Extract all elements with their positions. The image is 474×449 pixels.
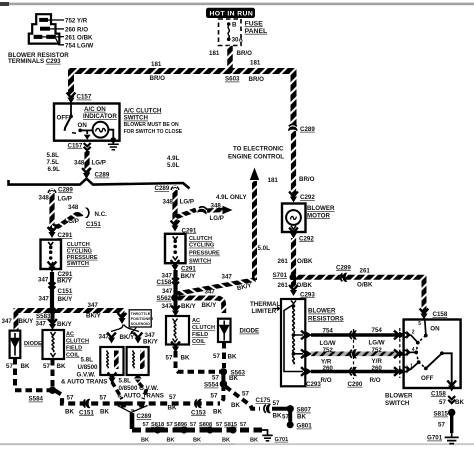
svg-text:57: 57 [43,363,50,370]
wire S562 down to coil (347 BK/Y) [174,300,178,310]
svg-text:ON: ON [430,325,440,332]
bottom ground rail 57 BK [132,428,262,433]
svg-text:7.5L: 7.5L [47,159,60,166]
A/C clutch field coil (left) [43,330,65,359]
wire 348 LG/P (left branch) [49,193,54,231]
svg-text:57: 57 [167,422,173,428]
wire S807 to G801 [288,411,292,422]
svg-text:4.9L: 4.9L [167,155,180,162]
svg-text:LG/W: LG/W [369,339,385,346]
svg-text:BK/Y: BK/Y [57,277,73,284]
svg-text:348: 348 [74,160,85,167]
svg-text:CYCLING: CYCLING [189,243,214,249]
svg-text:C289: C289 [155,185,170,192]
svg-text:C292: C292 [299,235,314,242]
svg-text:57: 57 [213,353,220,360]
wire 181 BR/O into blower motor [291,131,296,196]
svg-text:C289: C289 [58,186,73,193]
svg-text:57: 57 [242,391,249,398]
svg-text:COIL: COIL [66,352,80,358]
svg-text:C290: C290 [348,381,363,388]
svg-text:754 LG/W: 754 LG/W [65,42,93,49]
node S815 [448,409,455,416]
node S603 [227,68,232,73]
svg-text:181: 181 [250,59,261,66]
347 BK/Y bus (left lower) [16,311,122,331]
svg-text:347: 347 [36,320,47,327]
svg-text:& AUTO TRANS: & AUTO TRANS [61,379,107,386]
fuse F (B, 30A) [227,22,244,44]
svg-text:6.9L: 6.9L [48,166,61,173]
terminal 260 [40,27,50,31]
svg-text:A/C ON: A/C ON [84,106,106,113]
svg-text:BK/Y: BK/Y [202,302,218,309]
svg-text:DIODE: DIODE [240,328,260,335]
svg-text:A/C CLUTCH: A/C CLUTCH [124,107,162,114]
connector C151 (inline) [49,283,56,290]
svg-text:260: 260 [323,365,334,372]
svg-text:BK: BK [57,363,66,370]
svg-text:FUSE: FUSE [245,20,264,27]
svg-text:LG/P: LG/P [58,196,72,203]
svg-text:LIMITER: LIMITER [252,308,277,315]
wire S563 to S554 [221,373,225,381]
svg-text:BK/Y: BK/Y [58,296,74,303]
throttle positioner solenoid (right unit) [127,347,149,375]
diode (middle) [218,319,231,342]
svg-text:SWITCH: SWITCH [189,258,211,264]
svg-text:347: 347 [2,318,13,325]
svg-text:BK/Y: BK/Y [57,321,73,328]
clutch cycling pressure switch (middle) [165,234,186,263]
connector C151 (inline lower) [83,399,90,408]
svg-text:CLUTCH: CLUTCH [192,325,215,331]
connector C291 (below left switch) [48,262,57,273]
bus (second rail) [9,179,190,189]
leader 754 [56,39,64,45]
svg-text:347: 347 [38,277,49,284]
svg-text:57: 57 [439,399,446,406]
svg-text:C289: C289 [95,172,110,179]
svg-text:LG/W: LG/W [320,340,336,347]
wire S583 to coil (347 BK/Y) [51,312,55,322]
svg-text:BR/O: BR/O [249,76,265,83]
svg-text:POSITIONER: POSITIONER [131,317,154,321]
svg-text:5.0L: 5.0L [258,245,271,252]
dashed bus to S584 [15,388,50,392]
node S815 (rail) [229,426,236,433]
svg-text:5.8L: 5.8L [47,152,60,159]
svg-text:S815: S815 [224,422,237,428]
svg-text:TO ELECTRONIC: TO ELECTRONIC [233,146,284,153]
svg-text:O/BK: O/BK [297,258,313,265]
wire 261 O/BK motor to S701 [291,238,296,274]
svg-text:C291: C291 [181,265,196,272]
svg-text:BK/Y: BK/Y [120,334,136,341]
connector C289 (solenoid harness) [118,402,148,413]
connector C158 (inline, middle branch) [172,278,179,285]
svg-text:261: 261 [360,267,371,274]
clutch cycling pressure switch (left) [41,240,62,269]
connector C158 (switch top) [420,309,429,320]
wire S701 to blower switch (261 O/BK) [296,277,424,312]
svg-text:BK: BK [250,437,258,443]
svg-text:BLOWER MUST BE ON: BLOWER MUST BE ON [124,122,179,128]
wire to N.C. stub [52,214,83,227]
svg-text:BK: BK [229,375,238,382]
svg-text:OFF: OFF [421,375,434,382]
svg-text:BR/O: BR/O [299,176,315,183]
wire S701 down to resistors [291,280,296,289]
svg-text:& AUTO TRANS: & AUTO TRANS [118,393,164,400]
A/C on indicator box [54,104,120,141]
svg-text:BK: BK [168,404,177,411]
svg-text:5: 5 [418,321,421,327]
connector boundary at switch [399,328,401,378]
switch arm [426,353,452,384]
svg-text:BK: BK [273,412,282,419]
svg-text:SOLENOID: SOLENOID [131,322,151,326]
solenoid feed split [118,313,127,324]
wire 57 BK below middle coil [171,342,180,353]
svg-text:57: 57 [438,422,445,429]
ground G701 (right) [445,433,459,444]
svg-text:30A: 30A [232,37,244,44]
svg-text:347: 347 [39,296,50,303]
indicator lamp [80,122,108,138]
connector C290 (inline boundary) [353,329,355,379]
resistor wire 752 Y/R (striped) [301,347,405,366]
wire to ground [450,414,453,433]
svg-text:ENGINE CONTROL: ENGINE CONTROL [228,154,284,161]
svg-text:752: 752 [372,347,383,354]
ground G701 (rail end) [262,430,273,441]
svg-text:261: 261 [278,258,289,265]
node S562 [171,294,178,301]
page top rule [0,3,474,6]
svg-text:O/BK: O/BK [357,282,373,289]
svg-text:CYCLING: CYCLING [67,249,92,255]
wire fuse to bus (181 BR/O) [227,46,233,69]
blower switch internals [404,320,452,385]
svg-text:MOTOR: MOTOR [307,212,330,219]
node S583 [49,307,56,314]
svg-text:PRESSURE: PRESSURE [67,255,98,261]
svg-text:181: 181 [151,61,162,68]
svg-text:260: 260 [372,365,383,372]
svg-text:BK: BK [231,402,240,409]
svg-text:0/8500 G.V.W.: 0/8500 G.V.W. [119,385,159,392]
svg-text:BK: BK [65,409,74,416]
svg-text:BK: BK [181,355,190,362]
svg-text:BK: BK [228,354,237,361]
svg-text:57: 57 [100,394,107,401]
svg-text:AC: AC [192,318,200,324]
svg-text:RESISTORS: RESISTORS [308,315,344,322]
connector C175 [264,404,271,413]
svg-text:DIODE: DIODE [24,341,42,347]
svg-text:BLOWER: BLOWER [385,393,413,400]
svg-text:5.8L: 5.8L [81,356,94,363]
svg-text:S554: S554 [204,382,219,389]
page bottom rule [0,443,474,445]
svg-text:OFF: OFF [57,115,70,122]
svg-text:BK/Y: BK/Y [181,303,197,310]
connector C291 (into middle pressure switch) [171,221,180,232]
svg-text:G801: G801 [297,423,313,430]
dashed drops to C289 funnel [112,382,122,399]
svg-text:S818: S818 [151,422,164,428]
svg-text:348: 348 [39,195,50,202]
svg-text:LG/P: LG/P [180,198,194,205]
pin 1 [404,367,410,373]
svg-text:LG/P: LG/P [92,160,106,167]
svg-text:PRESSURE: PRESSURE [189,251,220,257]
svg-text:BK: BK [455,399,464,406]
wire 348 LG/P (middle) [172,190,177,224]
dashed bus 57 BK lower [55,391,220,404]
svg-text:C151: C151 [79,409,94,416]
solenoid exit connectors [108,373,117,384]
fuse panel (dashed box) [219,19,242,46]
svg-text:HOT IN RUN: HOT IN RUN [210,10,254,17]
blower motor [282,204,306,233]
svg-text:SWITCH: SWITCH [67,261,89,267]
svg-text:C157: C157 [77,94,92,101]
pin 4 [404,350,410,356]
svg-text:S896: S896 [174,422,187,428]
connector C291 (below middle switch) [171,260,180,271]
connector C289 (arrow onto bus hump) [82,168,91,179]
4.9L only branch with connector and arrow [175,194,247,222]
connector C289 (right column inline) [288,124,297,131]
svg-text:BLOWER: BLOWER [308,308,336,315]
svg-text:347: 347 [222,273,233,280]
svg-text:C293: C293 [306,381,321,388]
blower switch box [404,320,461,389]
svg-text:57: 57 [273,400,280,407]
svg-text:INDICATOR: INDICATOR [83,113,117,120]
S554 diagonal to C175 [226,387,261,409]
svg-text:181: 181 [209,50,220,57]
svg-text:FOR SWITCH TO CLOSE: FOR SWITCH TO CLOSE [124,129,183,135]
node S563 [220,368,227,375]
node S896 [180,426,187,433]
svg-text:BK: BK [297,414,306,421]
svg-text:BK/Y: BK/Y [181,273,197,280]
svg-text:S701: S701 [273,272,288,279]
svg-text:COIL: COIL [192,339,206,345]
node S807 [287,405,294,412]
wire junction to box exit [86,130,88,134]
svg-text:348: 348 [211,202,222,209]
to electronic engine control wire (5.0L) [178,146,285,294]
svg-text:347: 347 [205,289,216,296]
svg-text:752: 752 [323,347,334,354]
svg-text:57: 57 [216,422,222,428]
lamp ground [108,130,119,150]
connector C292 (below motor) [289,228,298,239]
pin 2 [404,332,410,338]
svg-text:4.9L ONLY: 4.9L ONLY [216,194,247,201]
svg-text:57: 57 [6,363,13,370]
wire 347 BK/Y [50,272,54,308]
svg-text:FIELD: FIELD [66,345,82,351]
resistor wire 754 LG/W [301,327,405,347]
ground point G801 [287,421,294,428]
svg-text:S562: S562 [157,295,172,302]
svg-text:S584: S584 [29,396,44,403]
svg-text:G701: G701 [275,437,289,443]
svg-text:S807: S807 [297,407,312,414]
svg-text:BK/Y: BK/Y [19,318,35,325]
svg-text:BK: BK [21,363,30,370]
node S701 [290,274,298,282]
svg-text:57: 57 [282,414,289,421]
svg-text:C289: C289 [336,264,351,271]
svg-text:LG/P: LG/P [65,218,79,225]
svg-text:57: 57 [240,422,246,428]
svg-text:57: 57 [212,374,219,381]
svg-text:CLUTCH: CLUTCH [66,338,89,344]
svg-text:57: 57 [190,422,196,428]
svg-text:SWITCH: SWITCH [385,400,410,407]
svg-text:THERMAL: THERMAL [250,301,280,308]
svg-text:57: 57 [169,394,176,401]
top bus 181 BR/O [71,71,294,125]
svg-text:U/8500: U/8500 [78,364,99,371]
svg-text:CLUTCH: CLUTCH [189,236,212,242]
connector C291 (into pressure switch) [48,227,57,238]
switch arm (off position) [65,104,83,134]
svg-text:BR/O: BR/O [237,50,253,57]
svg-text:C289: C289 [300,126,315,133]
wire 57 BK below diode [13,358,17,390]
connector C157 (below box) [84,143,91,150]
svg-text:O/BK: O/BK [297,282,313,289]
svg-text:R/O: R/O [321,377,332,384]
wire 57 BK below coil [51,359,55,389]
svg-text:754: 754 [372,327,383,334]
wire 57 BK below switch [448,396,455,403]
svg-text:5.0L: 5.0L [167,162,180,169]
svg-text:BK: BK [167,437,175,443]
svg-text:752 Y/R: 752 Y/R [65,18,88,25]
terminal 752 [39,18,48,22]
node S584 [49,387,56,394]
svg-text:C153: C153 [191,409,206,416]
svg-text:261 O/BK: 261 O/BK [65,34,93,41]
svg-text:754: 754 [323,327,334,334]
svg-text:57: 57 [166,355,173,362]
svg-text:C175: C175 [256,397,271,404]
HOT IN RUN power tag [206,8,255,18]
svg-text:G.V.W.: G.V.W. [77,371,96,378]
box exit arrow [84,135,91,140]
blower resistors box [281,299,305,386]
stub to ground rail [130,413,135,429]
wire 347 BK/Y (middle) [173,270,177,296]
svg-text:R/O: R/O [370,377,381,384]
svg-text:THROTTLE: THROTTLE [131,312,151,316]
svg-text:C157: C157 [68,142,83,149]
svg-text:N.C.: N.C. [95,211,108,218]
svg-text:C151: C151 [86,221,101,228]
svg-text:LG/P: LG/P [210,215,224,222]
throttle positioner solenoid (left unit) [100,347,123,375]
svg-text:57: 57 [67,394,74,401]
svg-text:BK: BK [213,408,222,415]
svg-text:C158: C158 [431,390,446,397]
svg-text:AC: AC [66,331,74,337]
svg-text:BK: BK [222,437,230,443]
wiper dashed detent [416,336,426,369]
svg-text:347: 347 [99,333,110,340]
svg-text:G701: G701 [427,435,443,442]
wire 57 BK below middle diode [222,342,226,368]
svg-text:BR/O: BR/O [150,75,166,82]
svg-text:ON: ON [78,122,88,129]
svg-text:S815: S815 [434,411,449,418]
svg-text:BK/Y: BK/Y [86,313,102,320]
leader 261 [42,36,64,38]
A/C clutch field coil (middle) [166,316,189,345]
diode (left) [10,331,21,358]
svg-text:C292: C292 [300,194,315,201]
svg-text:C291: C291 [58,232,73,239]
svg-text:CLUTCH: CLUTCH [67,242,90,248]
wire to S807 [272,407,287,411]
throttle positioner solenoid label [129,310,153,334]
svg-text:347: 347 [88,302,99,309]
svg-text:181: 181 [268,177,279,184]
svg-text:C158: C158 [433,311,448,318]
svg-text:TERMINALS C293: TERMINALS C293 [8,58,61,65]
node S818 [154,426,161,433]
blower resistor terminals connector C293 (housing) [8,14,93,65]
svg-text:SWITCH: SWITCH [124,115,149,122]
resistor wire 260 R/O [301,365,405,384]
terminal 754 [46,35,56,39]
N.C. terminator [85,208,90,218]
svg-text:S808: S808 [199,422,212,428]
svg-text:B: B [232,22,237,29]
terminal 261 [34,35,43,39]
svg-text:BK: BK [193,437,201,443]
svg-text:FIELD: FIELD [192,332,208,338]
svg-text:57: 57 [143,422,149,428]
svg-text:C289: C289 [137,413,152,420]
middle branch: connector C289 (dome under bus) [171,186,180,191]
svg-text:C293: C293 [300,291,315,298]
svg-text:C158: C158 [157,279,172,286]
leader 260 [50,28,64,30]
leader 752 [48,19,64,21]
svg-text:5.8L: 5.8L [119,377,132,384]
node S554 [220,380,227,387]
connector C157 (top) [67,93,76,104]
svg-text:BK: BK [100,409,109,416]
svg-text:348: 348 [68,204,79,211]
svg-text:BK: BK [141,437,149,443]
svg-text:PANEL: PANEL [245,28,268,35]
svg-text:348: 348 [163,198,174,205]
connector C153 (inline lower right) [195,399,202,408]
wire S562 to diode (347 BK/Y) [178,298,224,313]
wire 348 LG/P to C289 [84,151,89,174]
svg-text:BLOWER: BLOWER [307,205,335,212]
connector C289 (left branch, dome under bus) [48,189,57,194]
